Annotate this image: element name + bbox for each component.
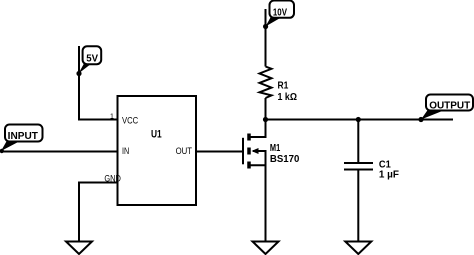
svg-text:5V: 5V xyxy=(86,54,98,65)
wire C1 bottom xyxy=(357,170,359,242)
wire C1 top xyxy=(357,120,359,164)
node 5V anchor xyxy=(76,71,81,76)
node 10V anchor xyxy=(263,24,268,29)
channel bar middle xyxy=(247,148,251,155)
wire input net xyxy=(0,151,118,153)
node drain junction xyxy=(263,117,268,122)
drain lead xyxy=(250,120,266,138)
capacitor C1 xyxy=(344,162,373,164)
node C1 junction xyxy=(356,117,361,122)
svg-text:OUT: OUT xyxy=(176,146,193,156)
op-amp U1 box xyxy=(118,96,197,205)
wire U1 out to gate xyxy=(196,151,243,153)
flag OUTPUT xyxy=(421,95,473,120)
svg-text:1 µF: 1 µF xyxy=(379,170,399,181)
node OUTPUT anchor xyxy=(418,117,423,122)
svg-text:R1: R1 xyxy=(278,80,289,91)
channel bar bottom xyxy=(247,162,251,169)
svg-text:1 kΩ: 1 kΩ xyxy=(278,92,298,103)
channel bar top xyxy=(247,134,251,141)
svg-text:M1: M1 xyxy=(270,143,281,154)
body arrow xyxy=(252,148,259,154)
ground 2 xyxy=(253,242,279,255)
svg-text:10V: 10V xyxy=(273,8,287,19)
flag 10V xyxy=(266,1,295,27)
wire source down xyxy=(265,165,267,241)
svg-text:INPUT: INPUT xyxy=(8,131,38,142)
wire GND net xyxy=(79,183,118,242)
transistor M1 xyxy=(243,120,266,242)
svg-text:OUTPUT: OUTPUT xyxy=(429,100,470,111)
wire 10V net xyxy=(265,9,267,67)
svg-text:1: 1 xyxy=(110,113,114,120)
svg-text:BS170: BS170 xyxy=(270,154,300,165)
svg-text:U1: U1 xyxy=(151,129,162,141)
wire R1 bottom xyxy=(265,98,267,120)
wire 5V net vertical xyxy=(79,46,118,120)
wire output rail xyxy=(266,119,454,121)
svg-text:VCC: VCC xyxy=(122,115,139,125)
body-source lead xyxy=(250,151,266,165)
flag INPUT xyxy=(0,125,43,154)
ground 3 xyxy=(345,242,371,255)
flag 5V xyxy=(79,46,102,73)
gate bar xyxy=(242,138,244,165)
svg-text:IN: IN xyxy=(122,146,129,156)
ground 1 xyxy=(66,242,92,255)
resistor R1 xyxy=(260,67,272,99)
